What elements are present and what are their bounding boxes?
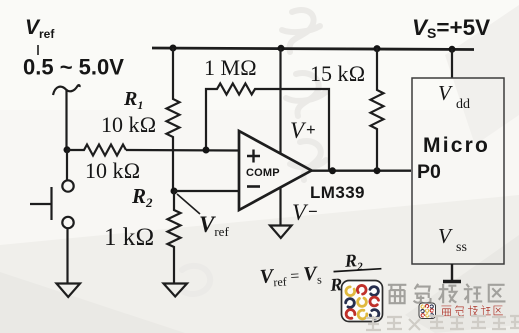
wire: micro Vss to ground bar: [451, 264, 453, 281]
pointer line from Vref label to divider node: [177, 194, 200, 214]
svg-text:10 kΩ: 10 kΩ: [85, 158, 140, 183]
ground below comparator: [270, 226, 292, 239]
svg-text:1 MΩ: 1 MΩ: [204, 55, 257, 80]
svg-text:Micro: Micro: [423, 134, 490, 157]
watermark logo (large): [342, 281, 383, 322]
svg-text:COMP: COMP: [246, 167, 280, 179]
junction: switch node: [64, 146, 71, 153]
source wavy arrow above switch: [53, 85, 80, 95]
junction: rail / micro Vdd branch: [449, 46, 456, 53]
svg-text:VS=+5V: VS=+5V: [412, 15, 490, 41]
svg-text:ss: ss: [456, 240, 467, 255]
wire: switch to ground: [66, 228, 68, 283]
ground below R2: [164, 284, 188, 297]
svg-text:dd: dd: [456, 97, 470, 112]
junction: rail / comparator V+ branch: [278, 45, 285, 52]
resistor 1 MOhm feedback loop: [206, 84, 329, 172]
svg-text:ref: ref: [39, 27, 55, 41]
push-button actuator bar: [50, 187, 52, 220]
ground below switch: [57, 284, 81, 298]
comparator minus sign: [247, 185, 260, 188]
tick mark above 0.5: [37, 45, 39, 55]
svg-text:V: V: [438, 81, 453, 105]
wire: +5V supply rail: [152, 48, 474, 50]
comparator plus sign: [247, 150, 260, 163]
watermark bottom faint row: [366, 315, 519, 331]
svg-text:+: +: [306, 120, 316, 139]
svg-text:LM339: LM339: [310, 183, 365, 202]
junction: 1M left leg on plus wire: [203, 147, 210, 154]
watermark text big gray (fake CJK glyphs): [388, 284, 506, 304]
svg-text:15 kΩ: 15 kΩ: [310, 61, 365, 86]
push-button lower contact circle: [62, 217, 73, 228]
wire: V+ supply into comparator: [279, 48, 281, 153]
svg-text:−: −: [308, 202, 318, 221]
junction: divider node (R1/R2/minus input): [171, 188, 178, 195]
resistor R2 1 kOhm (vertical) with leads: [168, 191, 181, 283]
resistor 15 kOhm (vertical) with leads: [371, 48, 384, 170]
junction: output / 15k: [374, 167, 381, 174]
wire: comparator V- to ground: [279, 188, 281, 225]
junction: rail / 15k resistor: [374, 45, 381, 52]
resistor R1 10 kOhm (vertical) with leads: [167, 48, 180, 191]
svg-text:V: V: [438, 224, 453, 248]
svg-text:0.5 ~ 5.0V: 0.5 ~ 5.0V: [23, 55, 124, 80]
wire: 10k to comparator plus input: [126, 149, 239, 152]
junction: output / 1M feedback: [329, 167, 336, 174]
svg-text:1 kΩ: 1 kΩ: [104, 224, 154, 251]
svg-text:P0: P0: [417, 161, 441, 183]
op-amp comparator U1 LM339 triangle: [239, 131, 312, 210]
push-button switch: upper contact stub: [66, 150, 68, 181]
junction: rail / R1: [170, 45, 177, 52]
svg-text:10 kΩ: 10 kΩ: [101, 112, 156, 137]
push-button upper contact circle: [62, 180, 73, 191]
IC micro box: [412, 78, 504, 264]
wire: divider node to comparator minus input: [174, 190, 239, 192]
formula Vref = Vs * R2/(R1+R2): [258, 249, 383, 302]
watermark mini logo: [419, 303, 436, 319]
ground bar below micro: [443, 280, 461, 284]
wire: source down to switch node: [65, 90, 67, 149]
wire: rail to micro Vdd: [451, 49, 453, 78]
watermark text small red (fake CJK glyphs): [441, 305, 502, 315]
wire: comparator output to micro P0: [311, 169, 411, 171]
resistor 10 kOhm horizontal (series with switch): [67, 145, 126, 156]
